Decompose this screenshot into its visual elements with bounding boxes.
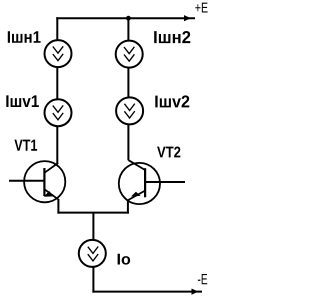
transistor VT1 bbox=[24, 161, 65, 202]
current source Iшн2 bbox=[116, 41, 143, 68]
transistor VT2 bbox=[119, 160, 160, 204]
wire VT2 emitter down bbox=[127, 200, 129, 214]
label Iшv2 bbox=[155, 95, 189, 107]
wire left branch vertical bbox=[56, 17, 58, 163]
label -E bbox=[198, 274, 207, 284]
current source Iшv1 bbox=[45, 99, 72, 126]
arrowhead +E bbox=[184, 15, 191, 21]
label Iшн1 bbox=[8, 31, 41, 43]
wire emitters join rail bbox=[57, 212, 128, 214]
wire tail vertical bbox=[92, 213, 94, 293]
label Io bbox=[118, 254, 131, 265]
label Iшн2 bbox=[154, 31, 190, 43]
wire right branch vertical bbox=[127, 17, 129, 160]
current source Io bbox=[79, 240, 106, 267]
label +E bbox=[195, 3, 207, 13]
current source Iшv2 bbox=[116, 97, 143, 124]
wire top rail +E bbox=[56, 17, 195, 19]
label VT2 bbox=[157, 147, 180, 158]
arrowhead -E bbox=[192, 289, 199, 295]
label Iшv1 bbox=[6, 95, 39, 107]
current source Iшн1 bbox=[45, 40, 72, 67]
label VT1 bbox=[14, 140, 37, 151]
wire VT1 emitter down bbox=[57, 199, 59, 214]
wire bottom rail -E bbox=[92, 291, 202, 293]
wire VT1 base bbox=[9, 180, 44, 182]
wire VT2 base bbox=[146, 181, 186, 183]
junction dot at +E rail bbox=[126, 16, 131, 21]
